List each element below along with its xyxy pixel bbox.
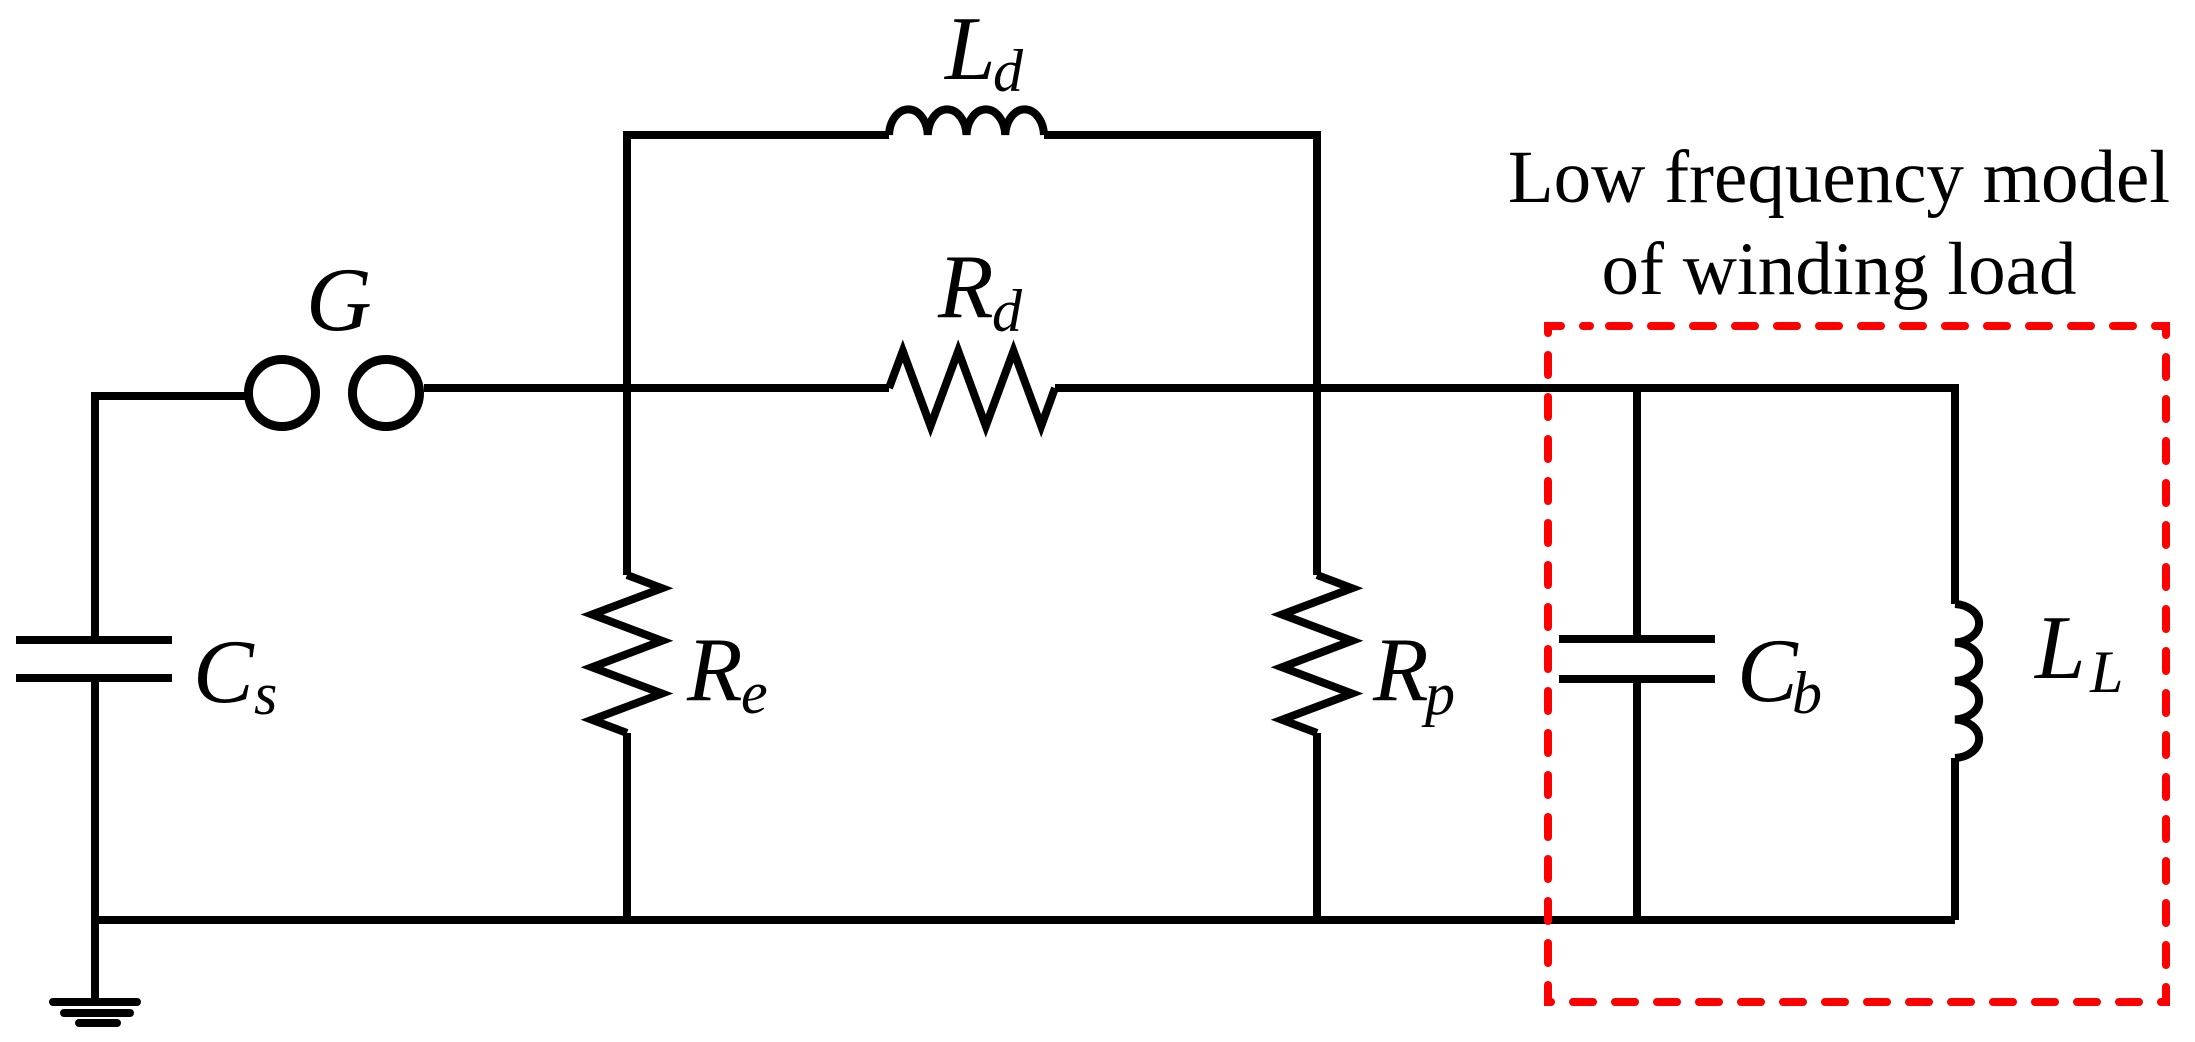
svg-text:R: R xyxy=(937,236,994,337)
resistor R_d zigzag xyxy=(889,351,1055,426)
inductor L_d humps xyxy=(889,109,1044,135)
wire Cb branch bottom xyxy=(1633,679,1641,920)
ground bar 3 xyxy=(79,1019,117,1027)
svg-text:L: L xyxy=(943,0,996,99)
wire Cb branch top xyxy=(1633,388,1641,639)
svg-text:d: d xyxy=(993,38,1024,104)
wire LL branch top xyxy=(1951,384,1959,604)
wire top rail right of inductor xyxy=(1044,131,1317,139)
ground stem xyxy=(91,920,99,1000)
svg-text:p: p xyxy=(1421,661,1455,727)
svg-text:d: d xyxy=(992,278,1023,344)
capacitor C_b bottom plate xyxy=(1559,675,1715,683)
wire Rp bottom to rail xyxy=(1313,733,1321,920)
dashed box: low frequency model of winding load xyxy=(1548,326,2166,1002)
capacitor C_b top plate xyxy=(1559,635,1715,643)
svg-text:C: C xyxy=(193,621,255,722)
svg-text:L: L xyxy=(2089,639,2123,705)
ground bar 1 xyxy=(53,998,137,1006)
wire Re bottom to rail xyxy=(623,733,631,920)
resistor R_e zigzag xyxy=(592,575,662,733)
wire left stub from spark gap to left rail corner xyxy=(95,396,246,640)
svg-text:R: R xyxy=(686,619,743,720)
wire C_s bottom to ground rail xyxy=(91,678,99,920)
resistor R_p zigzag xyxy=(1282,575,1352,733)
capacitor C_s top plate xyxy=(16,636,172,644)
wire bottom rail xyxy=(95,916,1955,924)
wire LL bottom xyxy=(1951,758,1959,920)
svg-text:b: b xyxy=(1792,660,1822,726)
spark gap G left electrode xyxy=(249,360,316,427)
svg-text:e: e xyxy=(741,660,768,726)
svg-text:of winding load: of winding load xyxy=(1602,228,2077,311)
inductor L_L humps xyxy=(1955,604,1979,758)
svg-text:G: G xyxy=(306,249,372,350)
svg-text:s: s xyxy=(254,661,277,727)
wire Ld-loop left vertical upper xyxy=(623,131,631,575)
svg-text:Low frequency model: Low frequency model xyxy=(1508,136,2170,219)
svg-text:C: C xyxy=(1737,620,1799,721)
svg-text:L: L xyxy=(2033,597,2086,698)
wire mid rail left part xyxy=(424,384,889,392)
capacitor C_s bottom plate xyxy=(16,674,172,682)
svg-text:R: R xyxy=(1372,619,1429,720)
ground bar 2 xyxy=(64,1009,130,1017)
wire top rail left of inductor xyxy=(623,131,889,139)
wire Ld-loop right vertical xyxy=(1313,131,1321,575)
wire mid rail right part xyxy=(1055,384,1955,392)
spark gap G right electrode xyxy=(353,360,420,427)
